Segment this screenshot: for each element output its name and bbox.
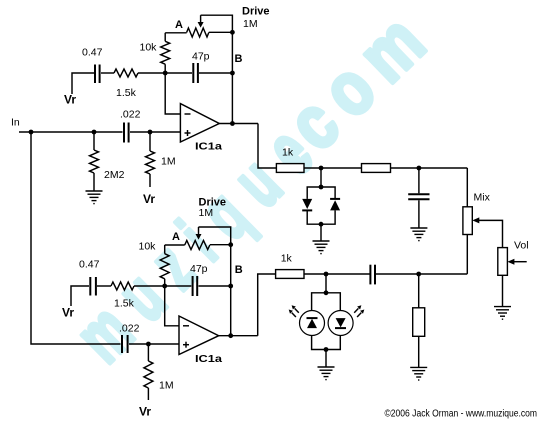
wire pot to B node stage2 [230,245,232,286]
svg-text:1k: 1k [282,147,294,159]
node junction 2M2 [92,130,97,135]
wire LED bridge bottom [312,336,341,350]
potentiometer Drive 1M stage1 [165,32,186,34]
wire 2M2 top lead [93,132,95,150]
wire diode bridge top [307,187,335,199]
wire 1.5k to node stage2 [134,285,165,287]
capacitor C 47p stage2 [192,276,194,296]
svg-text:Vr: Vr [143,192,155,206]
wire minus feedback stage1 [165,73,180,114]
svg-text:1.5k: 1.5k [114,298,135,310]
wire to Mix pot [466,168,468,207]
resistor R 10k stage2 [160,254,169,279]
diode D1 down [302,199,312,209]
svg-text:Vr: Vr [139,405,151,419]
svg-text:Vr: Vr [64,93,76,107]
wire wiper loop stage1 [201,15,233,32]
node feedback stage2 [162,284,167,289]
svg-text:1M: 1M [199,207,214,219]
resistor R 1M stage2 bias [144,361,153,388]
wire 1.5k to node [138,72,165,74]
wire cap to opamp plus stage2 [129,343,179,345]
capacitor C .022 stage2 [121,335,123,353]
capacitor C series stage2 [369,265,371,285]
svg-text:Drive: Drive [242,6,270,18]
svg-text:47p: 47p [192,51,210,63]
node diode top [319,185,324,190]
wire 1k to cap stage2 [304,273,370,275]
op-amp IC1a stage2 [179,316,219,355]
node pot junction stage1 [230,30,235,35]
wire LED to ground [325,350,327,368]
resistor R 2M2 [90,150,99,173]
wire cap to 1.5k stage2 [97,285,111,287]
resistor R 1.5k stage2 [111,282,134,290]
capacitor C 47p stage1 [192,63,194,83]
node feedback stage1 [163,71,168,76]
wire input horizontal [19,131,123,133]
svg-text:IC1a: IC1a [195,142,223,153]
wire opamp output stage2 [219,335,258,337]
svg-text:1M: 1M [159,380,174,392]
LED D4 circle [328,311,353,336]
wiper arrow Mix [472,217,479,223]
LED D3 circle [300,311,325,336]
ground under cap stage1 [410,228,427,241]
wire down to cap [418,168,420,193]
svg-text:Vol: Vol [514,240,529,252]
ground under 2M2 [86,191,103,204]
svg-text:A: A [175,19,183,31]
wire 47p to B stage2 [199,285,231,287]
svg-text:IC1a: IC1a [195,354,223,365]
svg-text:A: A [172,231,180,243]
diode D2 up [330,198,340,200]
wire to cap node [391,167,468,169]
capacitor C .022 stage1 [123,123,125,143]
wire wiper loop stage2 [199,227,231,245]
wire diode to ground [320,224,322,241]
potentiometer Drive 1M stage2 [165,244,185,246]
wire resistor to ground [418,336,420,367]
wire down to diode pair [320,168,322,187]
ground under Vol [494,307,511,320]
resistor R 1.5k stage1 [114,69,138,77]
node diode bottom [319,222,324,227]
wire diode bridge bottom [307,210,335,224]
node junction 1M stage2 [146,342,151,347]
node junction 1M stage1 [148,130,153,135]
svg-text:©2006 Jack Orman - www.muzique: ©2006 Jack Orman - www.muzique.com [385,409,538,420]
svg-text:In: In [11,117,20,129]
wire 47p to B [199,72,232,74]
wiper arrow stage2 [198,227,200,235]
node output stage1 [230,121,235,126]
wire node to 47p stage2 [165,285,192,287]
node LED junction [324,272,329,277]
wire LED bridge top [312,293,341,311]
svg-text:1M: 1M [243,18,258,30]
svg-text:10k: 10k [140,42,158,54]
capacitor C to ground stage1 [408,193,429,195]
wire 1k to mix resistor [304,167,362,169]
svg-text:B: B [235,53,243,65]
wire cap to 1.5k [101,72,114,74]
ground under diodes [313,241,330,254]
node diode junction [319,166,324,171]
wire cap to ground [418,200,420,228]
svg-text:0.47: 0.47 [79,259,100,271]
wire output corner up stage2 [258,274,276,336]
wire Vol to ground [502,275,504,306]
resistor R 1k stage2 [276,270,304,279]
potentiometer Mix [463,207,472,235]
wire cap to opamp plus [130,131,180,133]
node resistor junction stage2 [416,272,421,277]
wire B to output stage2 [230,286,232,336]
node LED bottom [324,347,329,352]
wire Mix bottom [466,235,468,274]
wire Vr corner stage2 [71,286,89,306]
wire B to output [231,73,233,124]
wire opamp output stage1 [219,123,258,125]
wire pot to B node [231,32,233,73]
wire 2M2 bottom lead [93,173,95,191]
wire Vr corner stage1 [72,73,94,94]
ground under resistor stage2 [410,367,427,380]
resistor R mix stage1 [362,164,391,173]
LED D4 rays [354,308,358,312]
LED D3 rays [295,308,299,312]
node pot junction stage2 [228,242,233,247]
node LED top [324,290,329,295]
svg-text:1k: 1k [281,253,293,265]
resistor R 1k stage1 [276,164,304,173]
wire cap to corner stage2 [376,273,467,275]
node junction input split [29,130,34,135]
wire down to resistor [418,274,420,308]
svg-text:.022: .022 [119,323,140,335]
resistor R 10k stage1 [161,41,170,64]
svg-text:1.5k: 1.5k [116,87,137,99]
resistor R 1M stage1 bias [146,151,155,174]
svg-text:10k: 10k [139,241,157,253]
capacitor C 0.47 stage1 [94,65,96,84]
potentiometer Vol [498,248,508,276]
svg-text:B: B [235,264,243,276]
ground under LEDs [318,367,335,380]
svg-text:0.47: 0.47 [82,47,103,59]
resistor R pulldown stage2 [413,308,425,337]
wire node to 47p [165,72,192,74]
node B stage2 [228,284,233,289]
capacitor C 0.47 stage2 [89,277,91,296]
wire down to LED pair [325,274,327,293]
svg-text:2M2: 2M2 [104,169,125,181]
node output stage2 [228,333,233,338]
node cap junction stage1 [417,166,422,171]
node B stage1 [230,71,235,76]
svg-text:.022: .022 [120,109,141,121]
wiper arrow stage1 [200,15,202,23]
svg-text:47p: 47p [190,263,208,275]
wire output corner down [258,124,276,169]
svg-text:1M: 1M [161,156,176,168]
wiper arrow Vol output [507,259,514,265]
wire input drop to stage2 [31,132,121,344]
svg-text:Mix: Mix [474,192,491,204]
svg-text:Vr: Vr [62,306,74,320]
op-amp IC1a stage1 [180,104,219,142]
wire minus feedback stage2 [165,286,179,326]
